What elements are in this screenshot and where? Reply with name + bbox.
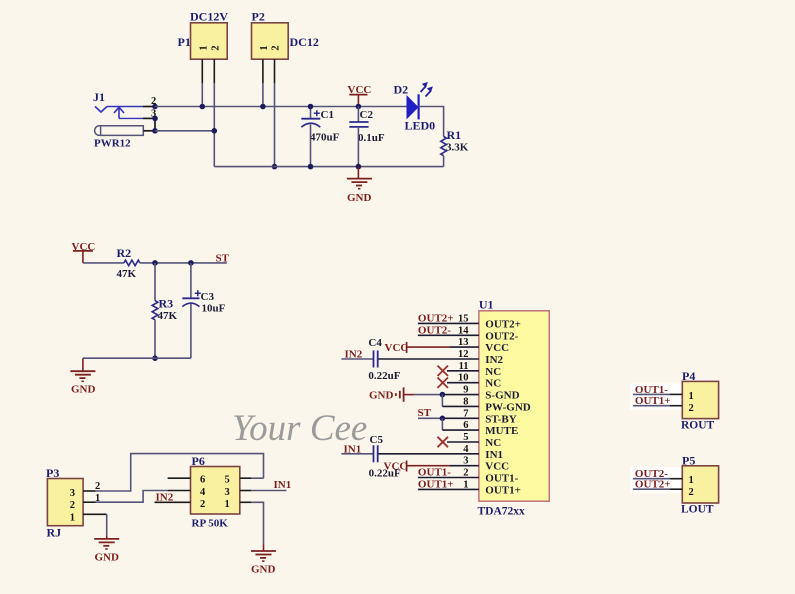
svg-text:OUT1-: OUT1- — [418, 467, 451, 479]
capacitor C2 0.1uF — [349, 107, 385, 167]
ground port at pin 9 — [369, 387, 414, 401]
node C3 top — [188, 260, 194, 266]
node C1 top — [308, 104, 314, 110]
connector P4 ROUT — [681, 369, 719, 432]
white band behind P5 labels — [630, 467, 682, 494]
wire P6 pin1 to ground — [251, 502, 264, 544]
svg-text:2: 2 — [689, 403, 694, 414]
svg-text:IN2: IN2 — [485, 354, 503, 366]
P4 pin 1 — [670, 393, 682, 395]
svg-text:1: 1 — [259, 45, 270, 50]
svg-text:VCC: VCC — [485, 461, 509, 473]
node C2 bottom GND bus — [356, 164, 362, 170]
svg-text:1: 1 — [689, 475, 694, 486]
no-connect X pin 10 — [438, 378, 449, 388]
svg-text:DC12: DC12 — [290, 35, 319, 49]
svg-text:0.22uF: 0.22uF — [368, 370, 400, 382]
svg-text:GND: GND — [71, 384, 96, 396]
U1 pin 1 OUT1+ — [418, 488, 479, 490]
svg-text:ST: ST — [418, 407, 432, 419]
svg-text:VCC: VCC — [485, 342, 509, 354]
svg-text:R3: R3 — [159, 297, 174, 311]
P1 pin 1 — [201, 59, 203, 83]
P2 pin 2 — [274, 59, 276, 83]
svg-text:3.3K: 3.3K — [446, 142, 469, 154]
wire P3 pin3 to P6 pin5 — [96, 454, 264, 491]
capacitor C5 0.22uF — [341, 434, 401, 480]
svg-text:5: 5 — [225, 475, 230, 486]
connector P1 DC12V — [178, 10, 229, 60]
svg-text:2: 2 — [200, 499, 205, 510]
wire middle ground bus — [83, 357, 191, 359]
svg-text:OUT2+: OUT2+ — [418, 313, 454, 325]
svg-text:OUT2+: OUT2+ — [485, 318, 521, 330]
P6 pin 5 — [240, 477, 251, 479]
P6 pin 1 — [240, 501, 251, 503]
svg-text:3: 3 — [225, 487, 230, 498]
ground GND middle — [70, 358, 95, 395]
svg-text:5: 5 — [463, 432, 468, 443]
svg-text:R1: R1 — [447, 128, 462, 142]
wire P3 pin2 to P6 pin4 — [96, 491, 168, 503]
svg-text:2: 2 — [271, 45, 282, 50]
svg-text:14: 14 — [458, 325, 469, 336]
U1 pin 14 OUT2- — [418, 334, 479, 336]
svg-text:ST: ST — [216, 253, 230, 265]
U1 pin 13 VCC — [450, 346, 479, 348]
svg-text:MUTE: MUTE — [485, 425, 518, 437]
no-connect X pin 5 — [438, 437, 449, 447]
capacitor C4 0.22uF — [341, 337, 400, 382]
svg-text:IN1: IN1 — [274, 479, 292, 491]
svg-text:OUT1+: OUT1+ — [418, 479, 454, 491]
svg-text:D2: D2 — [394, 83, 409, 97]
J1 pin 2 stub — [143, 106, 155, 108]
svg-text:ST-BY: ST-BY — [485, 413, 516, 425]
svg-text:10: 10 — [458, 373, 469, 384]
svg-text:C1: C1 — [321, 109, 334, 121]
P2 pin 1 — [262, 59, 264, 83]
svg-text:OUT1+: OUT1+ — [635, 395, 671, 407]
svg-text:9: 9 — [463, 385, 468, 396]
svg-text:2: 2 — [211, 45, 222, 50]
svg-text:GND: GND — [95, 552, 120, 564]
svg-text:47K: 47K — [117, 268, 137, 280]
J1 pin 3 stub — [143, 117, 155, 119]
ground GND at P3 — [94, 536, 119, 564]
svg-text:OUT1-: OUT1- — [485, 473, 518, 485]
svg-text:IN2: IN2 — [156, 491, 174, 503]
P1 pin 2 — [213, 59, 215, 83]
node J1 sleeve — [152, 128, 158, 134]
P3 pin 3 — [83, 490, 95, 492]
resistor R1 3.3K — [441, 128, 469, 156]
node J1 pin3 — [152, 116, 158, 122]
svg-text:RJ: RJ — [47, 526, 62, 540]
svg-text:13: 13 — [458, 337, 469, 348]
svg-text:IN1: IN1 — [344, 443, 362, 455]
svg-text:6: 6 — [200, 475, 205, 486]
wire R1 bottom — [443, 156, 445, 167]
wire P1 pin1 to bus — [201, 83, 203, 107]
no-connect X pin 11 — [438, 366, 449, 376]
svg-text:C3: C3 — [201, 291, 215, 303]
node VCC bus — [356, 104, 362, 110]
svg-text:10uF: 10uF — [202, 303, 226, 315]
node R3 bottom — [152, 355, 158, 361]
svg-text:3: 3 — [463, 456, 468, 467]
svg-text:NC: NC — [485, 378, 501, 390]
wire LED to R1 — [419, 107, 444, 137]
U1 pin 7 ST-BY — [442, 417, 479, 419]
node P2 pin1 bus — [260, 104, 266, 110]
connector J1 PWR12 — [93, 90, 143, 150]
svg-text:P2: P2 — [252, 10, 265, 24]
wire sleeve to P1 pin2 — [155, 130, 214, 132]
node pin9 junction — [440, 392, 446, 398]
svg-text:ROUT: ROUT — [681, 420, 715, 432]
U1 pin 15 OUT2+ — [418, 322, 479, 324]
svg-text:R2: R2 — [117, 246, 132, 260]
P3 pin 1 — [83, 513, 107, 515]
svg-text:C2: C2 — [360, 109, 374, 121]
wire OUT1+ to P4 pin2 — [633, 405, 670, 407]
wire P2 pin1 to bus — [262, 83, 264, 107]
node R3 top — [152, 260, 158, 266]
svg-text:S-GND: S-GND — [485, 390, 519, 402]
wire pin7 to pin6 — [441, 418, 443, 430]
svg-text:TDA72xx: TDA72xx — [478, 506, 526, 518]
svg-text:GND: GND — [251, 564, 276, 576]
svg-text:VCC: VCC — [384, 461, 408, 473]
power port VCC pin13 — [385, 342, 451, 354]
wire P6 pin5 up — [251, 477, 264, 479]
wire OUT1- to P4 pin1 — [633, 393, 670, 395]
wire P1 pin2 down — [213, 83, 215, 167]
svg-text:4: 4 — [463, 444, 469, 455]
P5 pin 1 — [670, 478, 682, 480]
svg-text:NC: NC — [485, 366, 501, 378]
svg-text:3: 3 — [70, 488, 75, 499]
wire P3 pin1 to ground — [106, 514, 108, 535]
svg-text:OUT2+: OUT2+ — [635, 478, 671, 490]
ground GND at P6 — [251, 545, 276, 576]
ground GND top section — [347, 167, 372, 204]
svg-text:PWR12: PWR12 — [94, 138, 131, 150]
node pin7 junction — [440, 416, 446, 422]
U1 pin 8 PW-GND — [442, 405, 479, 407]
wire GND to pin9 — [414, 394, 444, 396]
P3 pin 2 — [83, 501, 95, 503]
power port VCC pin3 — [384, 461, 451, 473]
P6 pin 6 — [168, 477, 191, 479]
svg-text:DC12V: DC12V — [190, 10, 228, 24]
node P2 pin2 ground bus — [272, 164, 278, 170]
svg-text:RP 50K: RP 50K — [192, 518, 229, 530]
P5 pin 2 — [670, 488, 682, 490]
svg-text:1: 1 — [689, 391, 694, 402]
U1 pin 6 MUTE — [442, 429, 479, 431]
wire ground bus bottom — [214, 166, 443, 168]
U1 pin 10 NC — [447, 382, 479, 384]
svg-text:12: 12 — [458, 349, 469, 360]
wire pin3 to sleeve — [154, 118, 156, 130]
svg-text:7: 7 — [463, 408, 468, 419]
svg-text:C4: C4 — [368, 337, 382, 349]
U1 pin 9 S-GND — [445, 394, 479, 396]
U1 pin 4 IN1 — [378, 453, 479, 455]
svg-text:2: 2 — [463, 468, 468, 479]
white band behind P4 labels — [630, 384, 682, 411]
svg-text:LOUT: LOUT — [681, 504, 714, 516]
connector P2 DC12 — [252, 10, 319, 60]
op-amp U1 TDA72xx body — [478, 298, 550, 518]
capacitor C1 470uF — [301, 107, 339, 167]
svg-text:GND: GND — [369, 390, 394, 402]
wire R2 to ST — [140, 262, 227, 264]
wire OUT2- to P5 pin1 — [633, 478, 670, 480]
svg-text:47K: 47K — [158, 310, 178, 322]
power port VCC top — [348, 84, 372, 106]
U1 pin 5 NC — [447, 441, 479, 443]
wire VCC bus top — [155, 106, 407, 108]
J1 sleeve pin stub — [143, 130, 155, 132]
svg-text:470uF: 470uF — [310, 132, 340, 144]
svg-text:PW-GND: PW-GND — [485, 401, 530, 413]
U1 pin 12 IN2 — [378, 358, 479, 360]
resistor R2 47K — [117, 246, 140, 280]
svg-text:11: 11 — [459, 361, 469, 372]
svg-text:C5: C5 — [370, 434, 384, 446]
power port VCC middle — [72, 241, 96, 263]
svg-text:1: 1 — [463, 479, 468, 490]
svg-text:2: 2 — [689, 487, 694, 498]
svg-text:2: 2 — [70, 500, 75, 511]
wire P2 pin2 down — [274, 83, 276, 167]
U1 pin 3 VCC — [450, 465, 479, 467]
P6 pin 2 — [155, 501, 191, 503]
svg-text:OUT1+: OUT1+ — [485, 484, 521, 496]
wire R3 top — [154, 263, 156, 301]
P6 pin 3 — [240, 490, 251, 492]
svg-text:8: 8 — [463, 396, 468, 407]
svg-text:1: 1 — [225, 499, 230, 510]
svg-text:LED0: LED0 — [405, 119, 436, 133]
LED D2 — [394, 82, 436, 133]
svg-text:U1: U1 — [479, 298, 494, 312]
svg-text:0.1uF: 0.1uF — [358, 132, 385, 144]
P4 pin 2 — [670, 405, 682, 407]
svg-text:VCC: VCC — [385, 342, 409, 354]
svg-text:P1: P1 — [178, 35, 191, 49]
svg-text:IN1: IN1 — [485, 449, 503, 461]
connector P5 LOUT — [681, 454, 719, 516]
svg-text:6: 6 — [463, 420, 468, 431]
svg-text:NC: NC — [485, 437, 501, 449]
U1 pin 2 OUT1- — [418, 477, 479, 479]
wire R3 bottom — [154, 320, 156, 358]
wire OUT2+ to P5 pin2 — [633, 488, 670, 490]
svg-text:4: 4 — [200, 487, 206, 498]
node C1 bottom — [308, 164, 314, 170]
capacitor C3 10uF — [182, 263, 225, 358]
U1 pin 11 NC — [447, 370, 479, 372]
wire pin9 to pin8 — [441, 395, 443, 407]
svg-text:1: 1 — [199, 45, 210, 50]
svg-text:GND: GND — [347, 192, 372, 204]
wire VCC to R2 — [83, 262, 124, 264]
svg-text:1: 1 — [70, 512, 75, 523]
svg-text:J1: J1 — [93, 90, 105, 104]
connector P3 RJ — [46, 466, 83, 540]
node P1 pin1 bus — [200, 104, 206, 110]
svg-text:15: 15 — [458, 313, 469, 324]
P6 pin 4 — [168, 490, 191, 492]
node J1 pin2 — [152, 104, 158, 110]
node P1 pin2 sleeve wire — [212, 128, 218, 134]
svg-text:OUT2-: OUT2- — [418, 325, 451, 337]
wire P6 pin3 IN1 — [251, 490, 287, 492]
wire ST to pin7 — [418, 417, 442, 419]
svg-text:OUT2-: OUT2- — [485, 330, 518, 342]
svg-text:IN2: IN2 — [345, 349, 363, 361]
trimmer P6 RP 50K — [191, 454, 240, 530]
resistor R3 47K — [152, 297, 177, 322]
